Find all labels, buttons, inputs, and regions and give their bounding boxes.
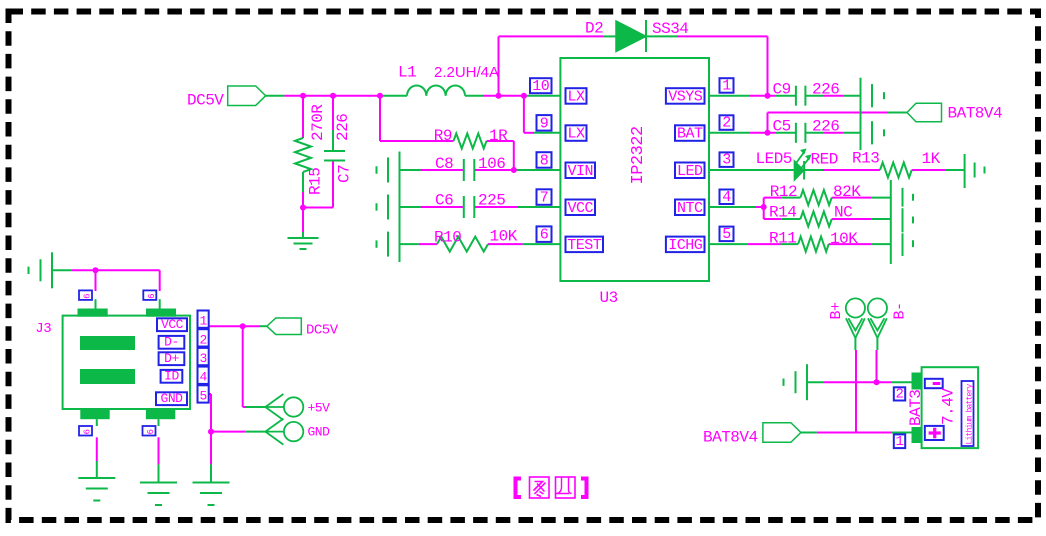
svg-text:2: 2 (722, 115, 731, 132)
svg-text:J3: J3 (35, 321, 51, 337)
svg-text:BAT8V4: BAT8V4 (703, 429, 758, 447)
svg-text:BAT3: BAT3 (907, 390, 925, 426)
svg-text:SS34: SS34 (652, 20, 688, 38)
svg-text:R15: R15 (306, 168, 324, 195)
svg-text:VSYS: VSYS (668, 89, 703, 106)
svg-text:NC: NC (834, 204, 852, 222)
svg-text:225: 225 (478, 192, 505, 210)
svg-text:TEST: TEST (567, 237, 602, 254)
svg-text:226: 226 (812, 118, 839, 136)
svg-text:R12: R12 (770, 183, 797, 201)
svg-text:6: 6 (83, 429, 93, 434)
svg-text:1: 1 (199, 314, 207, 329)
svg-text:9: 9 (540, 115, 549, 132)
svg-text:6: 6 (146, 429, 156, 434)
svg-text:C5: C5 (773, 118, 791, 136)
svg-text:10K: 10K (490, 228, 518, 246)
svg-text:VIN: VIN (567, 163, 593, 180)
svg-text:DC5V: DC5V (306, 323, 339, 339)
svg-text:LX: LX (567, 89, 585, 106)
svg-text:5: 5 (722, 226, 731, 243)
svg-text:2.2UH/4A: 2.2UH/4A (434, 64, 499, 81)
svg-text:IP2322: IP2322 (629, 126, 648, 184)
svg-text:ID: ID (164, 369, 179, 384)
svg-text:D-: D- (164, 335, 179, 350)
svg-text:LX: LX (567, 126, 585, 143)
svg-text:4: 4 (722, 189, 731, 206)
svg-text:VCC: VCC (567, 200, 593, 217)
svg-text:BAT: BAT (677, 126, 703, 143)
svg-text:GND: GND (308, 425, 331, 440)
svg-text:R9: R9 (434, 127, 452, 145)
svg-text:R14: R14 (769, 204, 796, 222)
svg-text:LED5: LED5 (756, 150, 792, 168)
svg-text:1R: 1R (489, 127, 508, 145)
svg-text:2: 2 (896, 386, 904, 402)
svg-text:R10: R10 (434, 229, 461, 247)
svg-text:B-: B- (892, 302, 909, 319)
svg-text:GND: GND (161, 391, 184, 406)
svg-text:82K: 82K (833, 183, 861, 201)
svg-text:6: 6 (147, 293, 157, 298)
svg-text:U3: U3 (600, 289, 618, 307)
svg-text:LED: LED (677, 163, 703, 180)
svg-text:NTC: NTC (677, 200, 703, 217)
svg-text:226: 226 (334, 114, 352, 141)
svg-text:270R: 270R (309, 104, 327, 141)
svg-text:106: 106 (478, 155, 505, 173)
svg-text:R11: R11 (769, 230, 796, 248)
svg-text:C9: C9 (773, 81, 791, 99)
svg-text:10K: 10K (830, 230, 858, 248)
svg-text:B+: B+ (828, 302, 845, 320)
svg-text:226: 226 (812, 81, 839, 99)
svg-text:10: 10 (532, 78, 550, 95)
svg-text:5: 5 (199, 388, 206, 403)
svg-text:VCC: VCC (161, 317, 184, 332)
svg-text:R13: R13 (852, 150, 879, 168)
svg-text:L1: L1 (398, 64, 416, 82)
svg-text:1: 1 (896, 434, 904, 450)
svg-text:C8: C8 (435, 155, 453, 173)
svg-text:7: 7 (540, 190, 549, 207)
svg-text:Lithium battery: Lithium battery (966, 383, 975, 444)
svg-text:C6: C6 (435, 192, 453, 210)
svg-text:BAT8V4: BAT8V4 (948, 105, 1003, 123)
svg-text:1: 1 (722, 78, 731, 95)
svg-text:8: 8 (540, 153, 549, 170)
svg-text:RED: RED (811, 151, 838, 169)
svg-text:D2: D2 (585, 20, 603, 38)
svg-text:4: 4 (199, 370, 207, 385)
svg-text:+5V: +5V (308, 401, 331, 416)
svg-text:D+: D+ (164, 351, 179, 366)
svg-text:ICHG: ICHG (668, 237, 703, 254)
svg-text:2: 2 (199, 332, 206, 347)
svg-text:6: 6 (540, 227, 549, 244)
svg-text:DC5V: DC5V (187, 92, 224, 110)
svg-text:1K: 1K (922, 150, 941, 168)
svg-text:3: 3 (722, 152, 731, 169)
svg-text:C7: C7 (336, 165, 354, 183)
svg-text:7.4V: 7.4V (940, 388, 958, 425)
svg-text:3: 3 (199, 351, 206, 366)
svg-text:6: 6 (83, 293, 93, 298)
